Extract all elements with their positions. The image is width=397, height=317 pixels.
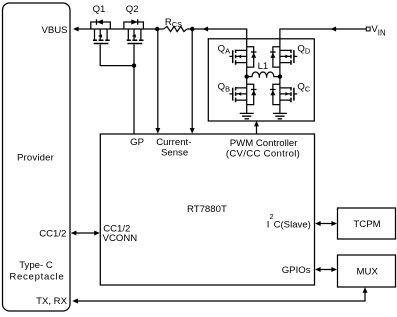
terminal VIN: [366, 27, 370, 31]
wire TX RX to MUX: [77, 292, 365, 302]
arrow on VIN rail: [331, 27, 337, 32]
transistor QC: [270, 84, 297, 104]
wire VBUS rail: [77, 28, 164, 30]
svg-text:MUX: MUX: [357, 266, 379, 277]
svg-text:CC1/2: CC1/2: [39, 229, 66, 240]
svg-text:TX, RX: TX, RX: [36, 296, 68, 307]
svg-text:Type- C: Type- C: [19, 260, 53, 271]
svg-text:L1: L1: [258, 61, 269, 72]
svg-text:QA: QA: [218, 43, 230, 55]
svg-text:(CV/CC Control): (CV/CC Control): [226, 149, 300, 160]
svg-text:Q2: Q2: [126, 4, 139, 15]
svg-text:GP: GP: [130, 137, 144, 148]
svg-text:RCS: RCS: [165, 17, 182, 29]
svg-text:Receptacle: Receptacle: [9, 271, 64, 282]
wire Q1 gate: [100, 44, 134, 65]
wire CC1/2 double arrow: [75, 232, 96, 234]
svg-text:GPIOs: GPIOs: [282, 265, 311, 276]
transistor Q2: [124, 19, 144, 43]
wire PWM controller to power stage: [256, 126, 258, 134]
svg-text:QB: QB: [218, 82, 230, 94]
svg-text:QC: QC: [297, 82, 310, 94]
wire QC to ground: [279, 105, 281, 114]
wire current-sense right: [191, 29, 193, 128]
transistor Q1: [91, 19, 111, 43]
power-stage box: [208, 39, 314, 121]
arrow into provider VBUS: [73, 27, 79, 32]
svg-text:I2C(Slave): I2C(Slave): [267, 212, 311, 231]
transistor QA: [229, 47, 256, 67]
wire QD to QC node: [279, 67, 281, 84]
wire RCS to QA drain: [187, 29, 247, 47]
wire current-sense left: [157, 29, 159, 128]
wire Q2 gate to GP: [133, 44, 135, 133]
ground QB: [240, 113, 254, 118]
RT7880T main box: [100, 134, 314, 285]
node L1 left: [245, 74, 249, 78]
node RCS left: [155, 27, 159, 31]
node L1 right: [278, 74, 282, 78]
svg-text:VIN: VIN: [371, 24, 385, 37]
svg-text:Q1: Q1: [93, 4, 106, 15]
wire GPIOs double arrow: [319, 269, 333, 271]
svg-text:Provider: Provider: [17, 152, 55, 163]
wire VIN rail: [280, 29, 366, 47]
resistor RCS: [164, 26, 187, 31]
MUX box: [338, 255, 396, 287]
svg-text:RT7880T: RT7880T: [187, 204, 227, 215]
TCPM box: [338, 208, 396, 239]
svg-text:QD: QD: [297, 43, 310, 55]
ground QC: [273, 113, 287, 118]
svg-text:VBUS: VBUS: [41, 25, 67, 36]
inductor L1: [247, 72, 280, 78]
Type-C receptacle Provider box: [3, 3, 71, 311]
svg-text:Current-: Current-: [156, 137, 191, 148]
svg-text:TCPM: TCPM: [353, 219, 380, 230]
wire I2C double arrow: [319, 223, 333, 225]
svg-text:VCONN: VCONN: [103, 233, 138, 244]
wire QB to ground: [246, 105, 248, 114]
wire QA to QB node: [246, 67, 248, 84]
svg-text:Sense: Sense: [161, 147, 188, 158]
node RCS right: [190, 27, 194, 31]
transistor QB: [229, 84, 256, 104]
arrow on rail after RCS: [203, 27, 209, 32]
node gate junction: [132, 63, 136, 67]
transistor QD: [270, 47, 297, 67]
